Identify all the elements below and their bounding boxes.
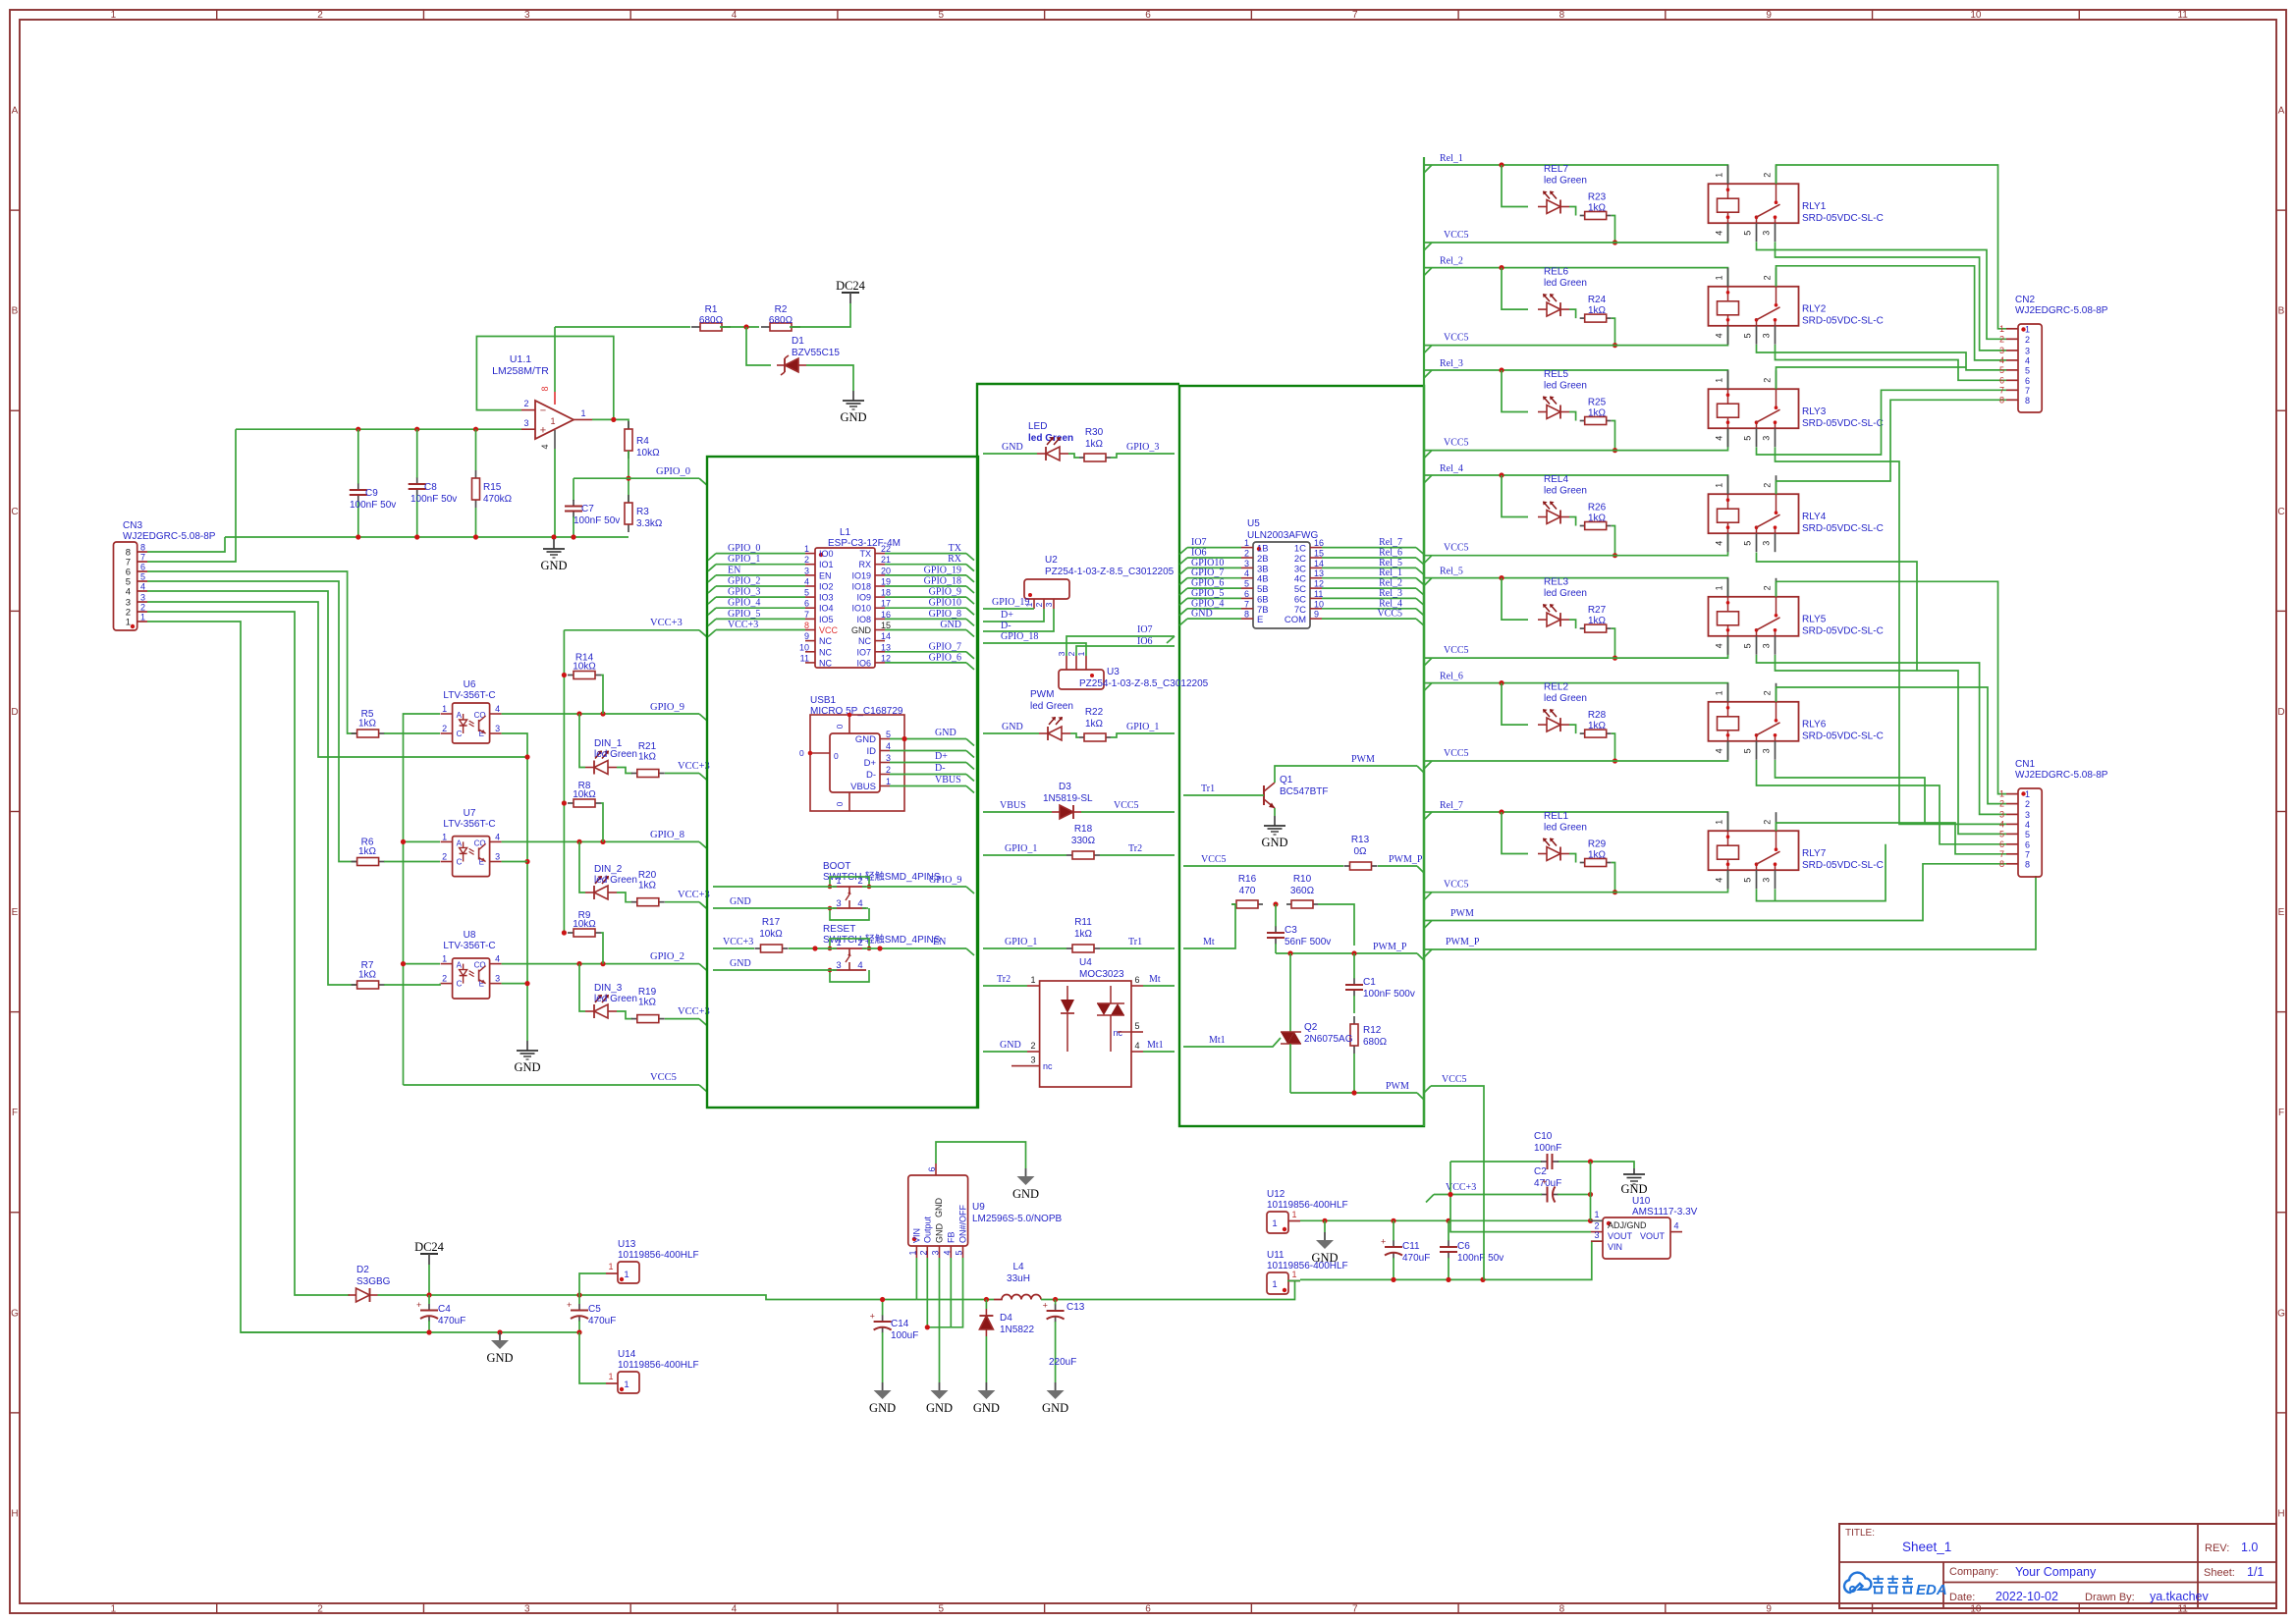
svg-text:5: 5 [1244, 579, 1249, 589]
svg-text:E: E [1257, 615, 1263, 625]
svg-text:1/1: 1/1 [2247, 1565, 2264, 1579]
svg-text:FB: FB [946, 1231, 956, 1243]
svg-text:10kΩ: 10kΩ [573, 662, 596, 673]
svg-text:RLY7: RLY7 [1802, 848, 1827, 859]
wire U9 GND pin down [939, 1258, 941, 1382]
svg-text:2: 2 [317, 1603, 323, 1614]
net label VCC+3 after R19 [665, 1006, 710, 1026]
node c10 right [1588, 1159, 1593, 1163]
wire U9 FB down [950, 1258, 952, 1327]
capacitor C2 470uF [1534, 1166, 1561, 1203]
wire reset pin2 EN [862, 947, 966, 949]
svg-text:RLY6: RLY6 [1802, 720, 1827, 730]
wire U5 pin10 Rel_4 [1322, 608, 1416, 610]
resistor R21 [617, 741, 665, 778]
svg-text:2: 2 [140, 603, 145, 613]
svg-text:led Green: led Green [1544, 176, 1587, 187]
wire CN3 pin8 to gnd bus [147, 537, 225, 552]
resistor R30 [1068, 427, 1111, 461]
svg-text:E: E [12, 907, 19, 918]
wire VCC5 row ch2 [1424, 345, 1728, 347]
svg-text:R11: R11 [1074, 917, 1092, 928]
svg-text:13: 13 [881, 642, 891, 652]
svg-text:LTV-356T-C: LTV-356T-C [443, 941, 495, 951]
node C8 bottom [414, 534, 419, 539]
svg-text:15: 15 [881, 621, 891, 630]
svg-text:GND: GND [730, 896, 751, 907]
svg-text:1: 1 [2025, 324, 2030, 334]
svg-text:3: 3 [1244, 559, 1249, 568]
svg-text:GPIO_8: GPIO_8 [929, 609, 961, 620]
wire U8 pin4 GPIO_2 row [502, 963, 699, 965]
transistor Q1 BC547BTF [1264, 775, 1328, 808]
optocoupler U7 LTV-356T-C [441, 808, 502, 877]
svg-text:GND: GND [973, 1401, 1000, 1415]
svg-text:IO4: IO4 [819, 604, 834, 614]
svg-text:Rel_4: Rel_4 [1440, 463, 1463, 474]
wire U14 to gnd rail [579, 1332, 606, 1383]
svg-text:5: 5 [2025, 830, 2030, 839]
svg-text:6: 6 [2025, 376, 2030, 386]
svg-text:4: 4 [886, 741, 891, 751]
svg-text:IO2: IO2 [819, 582, 834, 592]
svg-text:U10: U10 [1632, 1196, 1651, 1207]
wire Rel_3 coil row [1424, 370, 1728, 389]
capacitor C5 470uF [567, 1295, 616, 1332]
svg-text:SRD-05VDC-SL-C: SRD-05VDC-SL-C [1802, 860, 1884, 871]
svg-text:1N5819-SL: 1N5819-SL [1043, 793, 1093, 804]
svg-text:+: + [1043, 1301, 1048, 1311]
svg-text:GPIO_5: GPIO_5 [1191, 588, 1224, 599]
title text [1845, 1528, 2264, 1603]
relay RLY5 SRD-05VDC-SL-C [1709, 578, 1884, 655]
wire reset row left [713, 947, 754, 949]
led REL2 led Green [1538, 682, 1587, 732]
capacitor C6 100nF [1440, 1220, 1503, 1279]
svg-text:4: 4 [1673, 1221, 1678, 1231]
svg-text:VCC+3: VCC+3 [650, 618, 683, 628]
svg-text:GND: GND [730, 958, 751, 969]
svg-text:R12: R12 [1363, 1025, 1382, 1036]
svg-text:D+: D+ [1001, 610, 1013, 621]
svg-text:5: 5 [1999, 829, 2004, 839]
svg-text:2: 2 [1763, 173, 1773, 178]
wire U6 pin4 GPIO_9 row [502, 713, 699, 715]
wire Rel_5 coil row [1424, 578, 1728, 597]
svg-text:led Green: led Green [594, 994, 637, 1004]
node led branch ch3 [1499, 367, 1503, 372]
svg-text:U5: U5 [1247, 518, 1260, 529]
node vcc5 ch2 [1613, 343, 1617, 348]
led REL4 led Green [1538, 474, 1587, 524]
svg-text:E: E [2278, 907, 2285, 918]
svg-text:1: 1 [1715, 173, 1724, 178]
svg-text:220uF: 220uF [1049, 1357, 1076, 1368]
svg-text:1: 1 [1999, 324, 2004, 334]
svg-text:D-: D- [1001, 621, 1011, 631]
svg-text:U11: U11 [1267, 1250, 1285, 1261]
wire U7 pin4 GPIO_8 row [502, 840, 699, 842]
svg-text:PWM_P: PWM_P [1373, 942, 1407, 952]
svg-text:SRD-05VDC-SL-C: SRD-05VDC-SL-C [1802, 523, 1884, 534]
resistor R23 1k [1569, 192, 1612, 220]
svg-text:R23: R23 [1588, 192, 1607, 203]
node U8 pin1 [401, 961, 406, 966]
node R9 left [562, 930, 567, 935]
svg-text:1kΩ: 1kΩ [638, 752, 657, 763]
svg-text:REL2: REL2 [1544, 682, 1568, 693]
wire ESP pin12 net GPIO_6 [885, 662, 966, 664]
svg-text:IO8: IO8 [856, 615, 871, 624]
jumper U13 10119856-400HLF [606, 1239, 699, 1283]
svg-text:9: 9 [1766, 10, 1772, 21]
svg-text:4: 4 [1999, 355, 2004, 365]
svg-text:8: 8 [1999, 859, 2004, 869]
wire Rel_6 coil row [1424, 683, 1728, 702]
wire U5 pin6 GPIO_5 [1187, 597, 1241, 599]
svg-text:1kΩ: 1kΩ [1588, 408, 1607, 419]
wire RLY1 pin2 to CN2 pin1 [1777, 165, 2007, 329]
ground under U12 row [1311, 1232, 1338, 1265]
svg-text:GND: GND [851, 625, 872, 635]
svg-text:R24: R24 [1588, 295, 1607, 305]
svg-text:DIN_2: DIN_2 [594, 864, 623, 875]
svg-text:3: 3 [1594, 1230, 1599, 1240]
svg-text:C10: C10 [1534, 1131, 1553, 1142]
resistor R11 1k [983, 917, 1175, 952]
node led branch ch4 [1499, 472, 1503, 477]
svg-text:20: 20 [881, 566, 891, 575]
relay RLY1 SRD-05VDC-SL-C [1709, 165, 1884, 242]
jumper U11 10119856-400HLF [1267, 1250, 1348, 1294]
svg-text:100nF 50v: 100nF 50v [1457, 1253, 1503, 1264]
node C1 top [1351, 950, 1356, 955]
svg-text:10119856-400HLF: 10119856-400HLF [1267, 1200, 1348, 1211]
wire GPIO_18 to U3 pin1 [983, 643, 1086, 656]
wire BOOT pin1 left [713, 886, 837, 888]
svg-text:WJ2EDGRC-5.08-8P: WJ2EDGRC-5.08-8P [123, 531, 216, 542]
svg-text:IO18: IO18 [851, 582, 871, 592]
svg-text:3: 3 [1762, 436, 1772, 441]
resistor R1 [691, 304, 731, 331]
wire relay pin4 stub ch7 [1727, 870, 1729, 893]
svg-text:1B: 1B [1257, 544, 1269, 555]
wire U12 row to U10 pin1 [1300, 1219, 1603, 1221]
svg-text:Rel_1: Rel_1 [1440, 153, 1463, 164]
svg-text:3: 3 [1762, 748, 1772, 753]
wire D+ to U2 pin2 [983, 609, 1044, 622]
svg-text:4: 4 [732, 1603, 738, 1614]
svg-text:5: 5 [1743, 333, 1753, 338]
wire R5 to U6 pin2 [384, 732, 440, 734]
svg-text:IO19: IO19 [851, 570, 871, 580]
wire ESP pin15 net GND [885, 629, 966, 631]
svg-text:3: 3 [523, 418, 528, 428]
svg-text:1kΩ: 1kΩ [358, 846, 377, 857]
wire BOOT gnd row [713, 907, 837, 909]
svg-text:5: 5 [1743, 878, 1753, 883]
svg-text:10: 10 [1970, 10, 1982, 21]
svg-text:led Green: led Green [1544, 381, 1587, 392]
svg-text:C8: C8 [424, 482, 437, 493]
node vcc5 ch7 [1613, 890, 1617, 894]
svg-text:5: 5 [886, 730, 891, 739]
svg-text:0: 0 [799, 748, 804, 758]
svg-text:U12: U12 [1267, 1189, 1285, 1200]
svg-text:GND: GND [935, 728, 957, 738]
svg-text:REL3: REL3 [1544, 577, 1568, 588]
wire RLY3 pin2 up to CN2 pin5 rail [1777, 367, 1967, 389]
svg-text:6: 6 [2025, 839, 2030, 849]
svg-text:VIN: VIN [1608, 1242, 1622, 1252]
relay RLY7 SRD-05VDC-SL-C [1709, 812, 1884, 889]
svg-text:C: C [11, 507, 18, 517]
wire ESP pin17 net GPIO10 [885, 607, 966, 609]
svg-text:3: 3 [836, 960, 841, 971]
svg-text:GPIO_9: GPIO_9 [929, 587, 961, 598]
svg-text:7: 7 [804, 610, 809, 620]
svg-text:1: 1 [126, 618, 131, 628]
ESP module L1 ESP-C3-12F-4M [799, 527, 901, 668]
resistor R17 [755, 917, 789, 952]
svg-text:R13: R13 [1351, 835, 1370, 845]
capacitor C8 [409, 429, 458, 537]
node D4 top [984, 1297, 989, 1302]
wire U5 pin12 Rel_2 [1322, 587, 1416, 589]
svg-text:D: D [2277, 707, 2284, 718]
wire PWM_P row [1276, 952, 1417, 954]
svg-text:C7: C7 [581, 504, 594, 514]
svg-text:13: 13 [1314, 568, 1324, 578]
wire RLY4 pin5 down [1757, 553, 1918, 671]
svg-text:C: C [457, 730, 463, 738]
svg-text:A: A [457, 961, 463, 970]
svg-text:100uF: 100uF [891, 1330, 918, 1341]
node U8 pin3 [524, 981, 529, 986]
svg-text:Tr1: Tr1 [1201, 784, 1215, 794]
svg-text:3: 3 [524, 10, 530, 21]
svg-text:D4: D4 [1000, 1313, 1012, 1324]
jlceda logo [1844, 1573, 1947, 1598]
svg-text:U9: U9 [972, 1202, 985, 1213]
main 24V rail [378, 1295, 917, 1300]
svg-text:GND: GND [1261, 836, 1287, 849]
wire R25 to VCC5 row [1612, 421, 1615, 451]
svg-text:6: 6 [1999, 375, 2004, 385]
switch BOOT SWITCH-4PINS [823, 861, 941, 920]
svg-text:C: C [457, 858, 463, 867]
svg-text:330Ω: 330Ω [1071, 836, 1096, 846]
svg-text:1: 1 [111, 10, 117, 21]
wire relay pin4 stub ch1 [1727, 223, 1729, 243]
wire led branch ch4 [1502, 475, 1528, 517]
resistor R7 [352, 960, 385, 989]
svg-text:1: 1 [1715, 483, 1724, 488]
svg-text:Q2: Q2 [1304, 1022, 1318, 1033]
svg-text:2: 2 [1999, 334, 2004, 344]
svg-text:SRD-05VDC-SL-C: SRD-05VDC-SL-C [1802, 316, 1884, 327]
svg-text:IO6: IO6 [1191, 548, 1207, 559]
svg-text:GPIO_1: GPIO_1 [1126, 722, 1159, 732]
svg-text:PZ254-1-03-Z-8.5_C3012205: PZ254-1-03-Z-8.5_C3012205 [1045, 567, 1175, 577]
capacitor C3 56nF [1267, 904, 1331, 953]
svg-text:3: 3 [1762, 541, 1772, 546]
svg-text:1: 1 [1715, 820, 1724, 825]
svg-text:+: + [1542, 1177, 1547, 1187]
svg-text:3: 3 [804, 566, 809, 575]
regulator U10 AMS1117-3.3V [1591, 1196, 1698, 1259]
node vcc5 ch5 [1613, 656, 1617, 661]
resistor R12 680 [1350, 1016, 1388, 1054]
svg-text:S3GBG: S3GBG [356, 1276, 391, 1287]
wire R10 to C1 branch [1318, 904, 1354, 946]
resistor R10 360 [1286, 874, 1318, 908]
wire Tr2 to U4 pin1 [983, 985, 1027, 987]
svg-text:4: 4 [2025, 820, 2030, 830]
wire VCC5 feed down to VIN rail [1431, 1086, 1484, 1279]
relay RLY2 SRD-05VDC-SL-C [1709, 268, 1884, 345]
svg-text:1: 1 [580, 408, 585, 418]
svg-text:RLY2: RLY2 [1802, 304, 1827, 315]
wire Mt1 to Q2 gate [1183, 1038, 1281, 1047]
svg-text:BOOT: BOOT [823, 861, 850, 872]
svg-text:COM: COM [1285, 615, 1306, 625]
svg-text:IO7: IO7 [1137, 624, 1153, 635]
svg-text:Sheet_1: Sheet_1 [1902, 1540, 1951, 1554]
svg-text:4: 4 [1999, 819, 2004, 829]
svg-text:12: 12 [881, 653, 891, 663]
svg-text:+: + [870, 1312, 875, 1322]
svg-text:C4: C4 [438, 1304, 451, 1315]
svg-text:8: 8 [2025, 396, 2030, 406]
wire R14 right down to GPIO_9 row [601, 676, 603, 715]
node C6 top [1446, 1218, 1450, 1223]
svg-text:VCC5: VCC5 [1444, 880, 1469, 891]
relay RLY4 SRD-05VDC-SL-C [1709, 475, 1884, 552]
resistor R6 [352, 838, 385, 866]
svg-text:2: 2 [442, 974, 447, 984]
svg-text:RESET: RESET [823, 924, 855, 935]
led PWM indicator [983, 689, 1073, 740]
svg-text:2: 2 [1763, 483, 1773, 488]
wire op-amp feedback loop [476, 337, 613, 420]
node DIN3 drop [576, 961, 581, 966]
svg-text:NC: NC [819, 647, 832, 657]
wire GPIO_19 to U2 pin1 [983, 608, 1034, 610]
svg-text:led Green: led Green [1544, 693, 1587, 704]
svg-text:U2: U2 [1045, 555, 1058, 566]
wire C10 row [1450, 1161, 1542, 1163]
svg-text:R20: R20 [638, 870, 657, 881]
svg-text:TX: TX [949, 543, 962, 554]
wire RLY2 pin3 to CN2 pin6 [1776, 345, 2007, 380]
ground under C14 [869, 1382, 896, 1415]
green box driver section [1179, 386, 1424, 1126]
svg-text:D+: D+ [864, 758, 877, 769]
svg-text:21: 21 [881, 555, 891, 565]
svg-text:4: 4 [1134, 1041, 1139, 1051]
svg-text:22: 22 [881, 544, 891, 554]
wire R14 left to VCC+3 riser [563, 630, 565, 933]
wire CN3 pin6 to R5 [147, 571, 357, 733]
wire USB VBUS row [890, 785, 966, 787]
wire R27 to VCC5 row [1612, 628, 1615, 658]
svg-text:GND: GND [934, 1198, 944, 1218]
node R15 bottom [473, 534, 478, 539]
svg-text:4: 4 [1715, 541, 1724, 546]
resistor R14 [568, 653, 601, 679]
svg-text:CO: CO [474, 839, 486, 847]
svg-text:B: B [12, 306, 19, 317]
node R9 drop [600, 961, 605, 966]
svg-text:R26: R26 [1588, 503, 1607, 514]
wire VCC5 row ch7 [1424, 892, 1728, 893]
svg-text:GND: GND [1012, 1187, 1039, 1201]
svg-text:VCC5: VCC5 [1444, 543, 1469, 554]
wire ESP pin2 net GPIO_1 [716, 564, 805, 566]
capacitor C11 470uF [1381, 1220, 1430, 1279]
svg-text:Rel_5: Rel_5 [1440, 567, 1463, 577]
svg-text:Rel_2: Rel_2 [1440, 256, 1463, 267]
svg-text:IO9: IO9 [856, 593, 871, 603]
svg-text:5: 5 [1134, 1021, 1139, 1031]
ground below op-amp bus [540, 539, 567, 572]
svg-text:5: 5 [1743, 643, 1753, 648]
svg-text:14: 14 [1314, 559, 1324, 568]
wire boot pins3-4 bridge [862, 907, 868, 909]
resistor R22 [1070, 707, 1111, 741]
svg-text:led Green: led Green [1030, 701, 1073, 712]
wire U5 pin13 Rel_1 [1322, 577, 1416, 579]
svg-text:1: 1 [1715, 378, 1724, 383]
svg-text:1: 1 [550, 416, 555, 426]
capacitor C7 [565, 478, 620, 537]
node C9 top [355, 427, 360, 432]
node U7 pin1 [401, 839, 406, 844]
resistor R20 [617, 870, 665, 906]
svg-text:EN: EN [933, 937, 946, 947]
svg-text:Sheet:: Sheet: [2204, 1567, 2235, 1579]
wire U4 pin6 Mt [1143, 985, 1175, 987]
svg-text:GND: GND [855, 734, 876, 745]
wire VCC5 row ch4 [1424, 555, 1728, 557]
svg-text:Rel_6: Rel_6 [1379, 548, 1402, 559]
wire CN3 pin1 to gnd rail [147, 622, 427, 1332]
wire reset gnd row [713, 969, 837, 971]
node vout c2 [1448, 1192, 1452, 1197]
wire R7 to U8 pin2 [384, 984, 440, 985]
wire CN3 pin4 to R7 [147, 591, 357, 985]
svg-text:360Ω: 360Ω [1290, 886, 1315, 896]
green box interface section [977, 384, 1179, 1108]
node C6 bottom [1446, 1277, 1450, 1282]
svg-text:PWM: PWM [1351, 754, 1375, 765]
node C8 top [414, 427, 419, 432]
connector U2 PZ254-1-03 [1024, 555, 1175, 609]
svg-text:U8: U8 [464, 930, 476, 941]
svg-text:8: 8 [1559, 10, 1565, 21]
svg-text:5: 5 [1743, 231, 1753, 236]
node Q2 top [1287, 950, 1292, 955]
svg-text:GND: GND [1002, 722, 1023, 732]
svg-text:R4: R4 [636, 436, 649, 447]
svg-text:REV:: REV: [2205, 1542, 2229, 1554]
wire ESP pin5 net GPIO_3 [716, 596, 805, 598]
svg-text:GPIO_7: GPIO_7 [929, 641, 961, 652]
svg-text:RLY1: RLY1 [1802, 201, 1827, 212]
wire rail to D4 and L4 [916, 1299, 994, 1301]
wire R29 to VCC5 row [1612, 863, 1615, 893]
